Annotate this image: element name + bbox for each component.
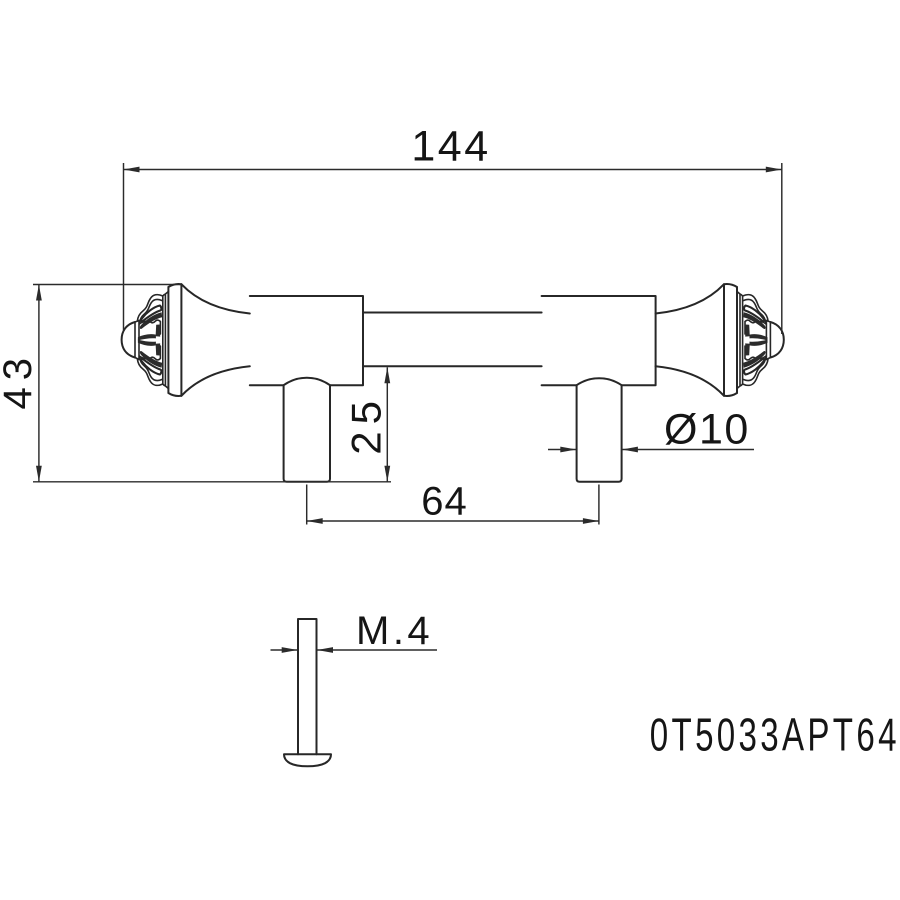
left finial — [122, 284, 250, 396]
arrowhead bottom 25 — [384, 466, 390, 482]
left post — [284, 378, 330, 482]
right finial — [656, 284, 784, 396]
arrowhead left 144 — [124, 167, 140, 173]
extension line right of 144 — [781, 163, 783, 334]
arrowhead left 64 — [307, 518, 323, 524]
svg-text:144: 144 — [411, 123, 490, 171]
arrowhead right M4 — [317, 647, 333, 653]
right post — [577, 378, 622, 481]
arrowhead top 43 — [36, 285, 42, 301]
dimension line 144 — [124, 169, 782, 171]
extension line left of 144 — [123, 163, 125, 330]
dimension line 25 — [386, 367, 388, 481]
screw head — [284, 754, 331, 766]
svg-text:Ø10: Ø10 — [664, 406, 750, 454]
svg-text:25: 25 — [343, 394, 390, 455]
dimension line 43 — [38, 285, 40, 482]
right mounting block — [542, 296, 656, 385]
arrowhead left diameter 10 — [560, 447, 576, 453]
dimension line 64 — [307, 520, 599, 522]
leader line right of diameter 10 — [622, 449, 754, 451]
svg-text:M.4: M.4 — [356, 609, 433, 653]
arrowhead right diameter 10 — [622, 447, 638, 453]
leader line left of M4 — [271, 649, 298, 651]
svg-text:43: 43 — [0, 351, 40, 410]
extension line bottom of 43 — [33, 481, 391, 483]
arrowhead right 144 — [766, 167, 782, 173]
leader line left of diameter 10 — [548, 449, 576, 451]
bar between mounting blocks — [363, 313, 542, 367]
left mounting block — [250, 296, 363, 385]
extension line right of 64 — [598, 485, 600, 525]
screw shaft — [298, 619, 317, 754]
extension line left of 64 — [306, 485, 308, 525]
arrowhead right 64 — [583, 518, 599, 524]
leader line right of M4 — [317, 649, 437, 651]
arrowhead bottom 43 — [36, 466, 42, 482]
svg-text:0T5033APT64: 0T5033APT64 — [650, 710, 900, 760]
arrowhead top 25 — [384, 367, 390, 383]
svg-text:64: 64 — [421, 480, 468, 524]
arrowhead left M4 — [282, 647, 298, 653]
extension line top of 43 — [33, 284, 181, 286]
